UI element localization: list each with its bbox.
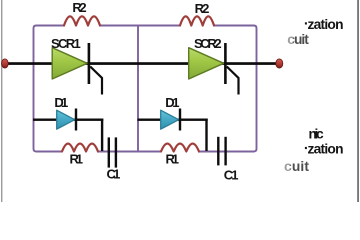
svg-text:zation: zation	[308, 141, 344, 156]
svg-text:nic: nic	[309, 127, 325, 142]
svg-text:R1: R1	[70, 152, 84, 167]
svg-text:D1: D1	[54, 95, 68, 110]
svg-text:C1: C1	[224, 168, 239, 183]
svg-text:C1: C1	[107, 167, 121, 182]
svg-text:D1: D1	[165, 95, 179, 110]
svg-text:SCR2: SCR2	[194, 36, 222, 51]
svg-text:R1: R1	[166, 152, 180, 167]
svg-text:SCR1: SCR1	[51, 36, 81, 51]
svg-text:R2: R2	[195, 1, 210, 16]
svg-text:zation: zation	[308, 17, 344, 32]
svg-text:R2: R2	[72, 0, 86, 15]
